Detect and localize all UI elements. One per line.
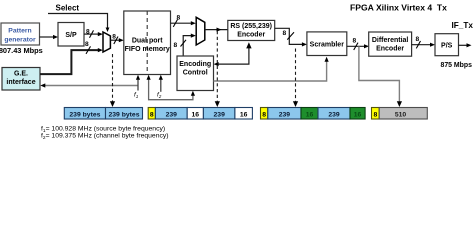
- wire scrambler to differential encoder: [347, 45, 365, 47]
- frame table group 2 cell 16 (2): [235, 108, 253, 120]
- svg-text:Dual port: Dual port: [132, 38, 163, 45]
- frame table group 2 cell 239 (2): [203, 108, 235, 120]
- wire RS to scrambler: [275, 28, 303, 44]
- svg-text:G.E.: G.E.: [14, 70, 28, 77]
- frame table group 3 cell 239: [268, 108, 301, 120]
- svg-text:interface: interface: [6, 79, 35, 86]
- clock line A into G.E.: [44, 85, 138, 87]
- annotation line to 510 cell: [359, 46, 400, 102]
- svg-text:FIFO memory: FIFO memory: [125, 46, 170, 53]
- svg-text:RS (255,239): RS (255,239): [230, 23, 272, 30]
- svg-text:8: 8: [416, 36, 420, 43]
- svg-text:239: 239: [279, 111, 291, 118]
- frame table group 4 cell 510: [379, 108, 427, 120]
- wire mux1 to FIFO: [110, 39, 119, 41]
- svg-text:16: 16: [240, 111, 248, 118]
- svg-text:S/P: S/P: [65, 32, 77, 39]
- wire P/S output IF_Tx: [459, 44, 468, 46]
- dashed annotation from mux1 to frame row: [112, 54, 114, 103]
- svg-text:FPGA Xilinx Virtex 4 Tx: FPGA Xilinx Virtex 4 Tx: [350, 3, 447, 13]
- bus slash 8: [173, 20, 177, 27]
- dashed annotation from scrambler input to frame row: [295, 49, 297, 103]
- clock arrow f1 into FIFO: [137, 79, 139, 91]
- svg-text:Differential: Differential: [372, 37, 409, 44]
- block scrambler: [307, 32, 347, 56]
- svg-text:239: 239: [166, 111, 178, 118]
- bus slash 8: [86, 46, 91, 54]
- svg-text:Encoding: Encoding: [179, 61, 211, 68]
- svg-text:239 bytes: 239 bytes: [109, 111, 140, 118]
- svg-text:239: 239: [214, 111, 226, 118]
- block encoding control: [177, 56, 214, 91]
- frame table group 2 cell 239: [155, 108, 187, 120]
- svg-text:8: 8: [353, 38, 357, 45]
- svg-text:8: 8: [262, 111, 266, 118]
- FIFO partition dashed: [146, 11, 148, 75]
- block dual port FIFO memory: [124, 11, 171, 75]
- bus slash 8: [114, 37, 118, 45]
- block G.E. interface: [2, 68, 40, 91]
- frame table group 1 cell 239 bytes (2): [106, 108, 143, 120]
- block RS (255,239) encoder: [228, 20, 275, 40]
- wire mux2 to RS encoder: [205, 29, 228, 31]
- svg-text:Control: Control: [183, 70, 208, 77]
- svg-text:IF_Tx: IF_Tx: [452, 21, 474, 30]
- svg-text:8: 8: [86, 29, 90, 36]
- svg-text:239: 239: [328, 111, 340, 118]
- wire EC to RS (bidirectional): [218, 45, 249, 64]
- wire patgen to S/P: [40, 36, 55, 38]
- frame table group 3 cell 239 (2): [318, 108, 350, 120]
- svg-text:8: 8: [374, 111, 378, 118]
- svg-text:8: 8: [177, 15, 181, 22]
- block P/S: [435, 34, 459, 56]
- frame table group 3 cell 16 green (2): [350, 108, 365, 120]
- mux M1: [103, 32, 110, 52]
- svg-text:8: 8: [283, 30, 287, 37]
- bus slash 8: [287, 32, 294, 39]
- svg-text:875 Mbps: 875 Mbps: [441, 62, 473, 69]
- svg-text:16: 16: [192, 111, 200, 118]
- wire S/P to mux1: [84, 33, 98, 35]
- frame table group 3 cell 16 green: [301, 108, 318, 120]
- svg-text:Select: Select: [56, 4, 80, 13]
- svg-text:Pattern: Pattern: [8, 28, 31, 35]
- svg-text:Encoder: Encoder: [237, 32, 265, 39]
- frame table group 4 cell 8: [372, 108, 380, 120]
- frame table group 1 cell 239 bytes: [64, 108, 105, 120]
- svg-text:8: 8: [85, 41, 89, 48]
- svg-text:8: 8: [112, 33, 116, 40]
- wire select net: [48, 14, 108, 29]
- dashed annotation from mux2 to frame row: [216, 31, 218, 103]
- svg-text:16: 16: [306, 111, 314, 118]
- clock line B EC to scrambler: [214, 61, 327, 82]
- block S/P: [58, 23, 84, 47]
- wire FIFO to mux2: [171, 22, 192, 24]
- wire G.E. to mux1 (thick): [40, 50, 98, 74]
- block differential encoder: [369, 32, 412, 56]
- wire encoding control to mux2: [183, 36, 191, 56]
- frame table group 3 cell 8: [261, 108, 268, 120]
- frame table group 2 cell 8: [148, 108, 155, 120]
- svg-text:239 bytes: 239 bytes: [69, 111, 100, 118]
- mux M2: [196, 17, 205, 45]
- svg-text:8: 8: [174, 42, 178, 49]
- svg-text:generator: generator: [4, 37, 36, 44]
- bus slash 8: [90, 30, 94, 37]
- svg-text:510: 510: [395, 111, 407, 118]
- bus slash 8: [354, 43, 358, 50]
- block pattern generator: [1, 23, 40, 45]
- wire diff encoder to P/S: [412, 44, 431, 46]
- clock path v2 FIFO/EC: [149, 79, 193, 100]
- svg-text:8: 8: [150, 111, 154, 118]
- frame table group 2 cell 16: [187, 108, 203, 120]
- bus slash 8: [416, 41, 420, 48]
- clock arrow f2 into FIFO: [160, 79, 162, 92]
- svg-text:Scrambler: Scrambler: [310, 41, 345, 48]
- svg-text:P/S: P/S: [441, 42, 453, 49]
- svg-text:807.43 Mbps: 807.43 Mbps: [0, 46, 43, 55]
- bus slash 8: [181, 40, 187, 47]
- svg-text:16: 16: [354, 111, 362, 118]
- svg-text:Encoder: Encoder: [376, 46, 404, 53]
